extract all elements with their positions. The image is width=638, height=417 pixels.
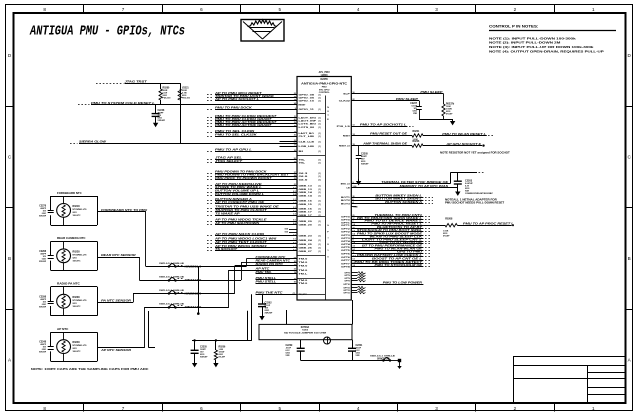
svg-text:9: 9 <box>295 108 296 110</box>
svg-text:(1): (1) <box>319 236 322 238</box>
svg-text:XW2214 0: XW2214 0 <box>185 306 203 309</box>
svg-text:23: 23 <box>294 93 296 95</box>
svg-text:NOTE: 100PF CAPS ARE THE SAMPL: NOTE: 100PF CAPS ARE THE SAMPLING CAPS F… <box>31 367 150 371</box>
svg-text:7.8: 7.8 <box>353 243 356 245</box>
svg-text:2: 2 <box>514 406 517 411</box>
svg-text:(1): (1) <box>319 176 322 178</box>
svg-text:(1): (1) <box>319 212 322 214</box>
svg-text:3: 3 <box>353 237 354 239</box>
svg-text:(1): (1) <box>319 109 322 111</box>
svg-text:10K-NTC: 10K-NTC <box>73 260 82 262</box>
svg-text:GBB_24: GBB_24 <box>299 239 314 242</box>
svg-text:Y2200: Y2200 <box>302 330 309 332</box>
svg-text:23: 23 <box>294 178 296 180</box>
svg-text:PMU SOCHOT NEEDS PULL-DOWN RES: PMU SOCHOT NEEDS PULL-DOWN RESET <box>445 202 505 205</box>
svg-text:CONTROL P IN NOTES:: CONTROL P IN NOTES: <box>489 25 538 29</box>
svg-text:8.1: 8.1 <box>293 191 296 193</box>
svg-text:FORKBEARD NTC: FORKBEARD NTC <box>57 191 82 195</box>
svg-text:54: 54 <box>294 256 296 259</box>
svg-text:(1): (1) <box>319 101 322 103</box>
svg-text:(1): (1) <box>319 124 322 126</box>
svg-text:PMU TO LOW POWER: PMU TO LOW POWER <box>383 282 423 285</box>
svg-text:PMU SLEEP: PMU SLEEP <box>396 98 419 101</box>
svg-text:8.4: 8.4 <box>293 222 296 225</box>
svg-text:0201: 0201 <box>73 348 77 350</box>
svg-text:A: A <box>628 357 632 362</box>
svg-text:21: 21 <box>353 215 355 217</box>
svg-text:8: 8 <box>43 406 46 411</box>
svg-text:TM.0: TM.0 <box>299 270 309 272</box>
svg-text:GI.0: GI.0 <box>299 180 310 182</box>
svg-text:CLT_LIB: CLT_LIB <box>299 136 315 138</box>
svg-text:X5R: X5R <box>413 113 417 115</box>
svg-text:GBB_14: GBB_14 <box>299 191 314 194</box>
svg-text:4: 4 <box>353 201 354 204</box>
svg-text:2.1: 2.1 <box>293 199 296 201</box>
svg-text:17: 17 <box>294 161 296 163</box>
svg-text:GPIO_09: GPIO_09 <box>299 98 316 100</box>
svg-text:PMU RESET OUT OE: PMU RESET OUT OE <box>370 132 407 135</box>
svg-text:A: A <box>8 357 12 362</box>
svg-text:4: 4 <box>357 406 360 411</box>
svg-text:PMU SLEEP: PMU SLEEP <box>420 91 443 94</box>
svg-text:BRIO_LS: BRIO_LS <box>341 183 351 185</box>
svg-text:SLP: SLP <box>343 94 351 96</box>
svg-text:TM.0: TM.0 <box>299 266 309 268</box>
svg-text:R0238: R0238 <box>73 296 81 299</box>
svg-text:NOTE (4): OUTPUT OPEN-DRAIN, R: NOTE (4): OUTPUT OPEN-DRAIN, REQUIRES PU… <box>489 50 604 54</box>
svg-text:7: 7 <box>122 7 125 12</box>
svg-text:(1): (1) <box>319 186 322 188</box>
svg-text:(1): (1) <box>319 195 322 197</box>
svg-text:GPT11: GPT11 <box>343 292 350 294</box>
svg-text:LAOT_DIG: LAOT_DIG <box>299 116 317 119</box>
svg-text:26: 26 <box>294 135 296 137</box>
svg-text:(1): (1) <box>319 244 322 246</box>
svg-text:TIL: TIL <box>299 163 307 165</box>
svg-text:PMU TO AP PROC RESET L: PMU TO AP PROC RESET L <box>463 223 514 226</box>
svg-text:24: 24 <box>294 98 296 101</box>
svg-text:PMU TO SEL CLK32K: PMU TO SEL CLK32K <box>215 133 257 136</box>
svg-text:PMU TO WLAN RESET L: PMU TO WLAN RESET L <box>442 133 487 136</box>
svg-text:E: E <box>327 119 329 121</box>
svg-text:13: 13 <box>294 132 296 134</box>
svg-text:C: C <box>8 154 12 159</box>
svg-text:6.4: 6.4 <box>353 233 356 236</box>
svg-text:D: D <box>628 53 632 58</box>
svg-text:LIB: LIB <box>346 187 350 189</box>
svg-text:LAOT_BO: LAOT_BO <box>299 132 315 135</box>
svg-text:GPT0: GPT0 <box>341 217 351 219</box>
svg-text:10K-NTC: 10K-NTC <box>73 351 82 353</box>
svg-text:XW2213 0: XW2213 0 <box>185 293 203 296</box>
svg-text:(1): (1) <box>319 192 322 194</box>
svg-text:BOT3: BOT3 <box>341 204 351 206</box>
svg-text:1.0: 1.0 <box>353 224 356 226</box>
svg-text:(1): (1) <box>319 221 322 223</box>
svg-text:1: 1 <box>592 7 595 12</box>
svg-text:TM.0: TM.0 <box>299 280 309 282</box>
svg-text:GBB_17: GBB_17 <box>299 215 314 217</box>
svg-text:REAR NTC SENSOR: REAR NTC SENSOR <box>101 254 136 257</box>
svg-text:B: B <box>628 256 631 261</box>
svg-text:P18_LS: P18_LS <box>337 126 351 128</box>
svg-text:GPT6: GPT6 <box>341 257 351 259</box>
svg-text:0201: 0201 <box>73 257 77 259</box>
svg-text:5.1: 5.1 <box>293 246 296 248</box>
svg-text:8: 8 <box>353 240 354 242</box>
svg-text:2.1: 2.1 <box>293 234 296 236</box>
svg-text:XW2-0.5-1 OHM-#B: XW2-0.5-1 OHM-#B <box>159 290 185 292</box>
svg-text:G: G <box>327 225 329 227</box>
svg-text:2.1: 2.1 <box>293 203 296 205</box>
svg-text:RESET_LS: RESET_LS <box>339 145 350 147</box>
svg-text:22: 22 <box>353 99 355 101</box>
svg-text:GPT0: GPT0 <box>341 219 351 221</box>
svg-text:GPT2: GPT2 <box>341 232 351 234</box>
svg-text:10K-NTC: 10K-NTC <box>73 306 82 308</box>
svg-text:O: O <box>327 244 329 246</box>
svg-text:TM_NTC: TM_NTC <box>299 294 308 296</box>
svg-text:GI.0: GI.0 <box>299 176 310 178</box>
svg-text:LOTS_BI: LOTS_BI <box>299 127 315 129</box>
svg-text:BOT2: BOT2 <box>341 200 351 202</box>
svg-text:(1): (1) <box>319 151 322 153</box>
svg-text:U2800: U2800 <box>321 75 328 77</box>
svg-text:30: 30 <box>353 196 355 198</box>
svg-text:8.1: 8.1 <box>293 220 296 222</box>
svg-text:17: 17 <box>294 145 296 147</box>
svg-text:GBB_20: GBB_20 <box>299 225 314 227</box>
svg-text:SA TOGGLE JUMPER 100 OHM: SA TOGGLE JUMPER 100 OHM <box>284 332 326 335</box>
svg-text:(1): (1) <box>319 159 322 161</box>
svg-text:P: P <box>327 231 329 233</box>
svg-text:C: C <box>628 154 632 159</box>
svg-text:SIERRA GLOW: SIERRA GLOW <box>79 140 107 143</box>
svg-text:0: 0 <box>327 257 329 259</box>
svg-text:X5R: X5R <box>356 355 360 357</box>
svg-text:5%-MF: 5%-MF <box>219 357 226 359</box>
svg-text:9.1: 9.1 <box>353 249 356 251</box>
svg-text:GPT4: GPT4 <box>341 243 351 246</box>
svg-text:8: 8 <box>353 199 354 201</box>
svg-text:(1): (1) <box>319 173 322 175</box>
svg-text:5: 5 <box>279 7 282 12</box>
svg-text:PMU TO STOCKHOLM OE: PMU TO STOCKHOLM OE <box>375 264 423 267</box>
svg-text:X5R: X5R <box>286 355 290 357</box>
svg-text:13: 13 <box>353 125 355 127</box>
svg-text:NTCWM03-LTS: NTCWM03-LTS <box>73 209 88 211</box>
svg-text:5.6: 5.6 <box>353 230 356 232</box>
svg-text:CLB_LLB: CLB_LLB <box>299 141 315 143</box>
svg-text:REAR CAMERA NTC: REAR CAMERA NTC <box>57 236 86 240</box>
svg-text:GBB_15: GBB_15 <box>299 204 314 206</box>
svg-text:ANTIGUA PMU - GPIOs, NTCs: ANTIGUA PMU - GPIOs, NTCs <box>29 25 185 40</box>
svg-text:1: 1 <box>592 406 595 411</box>
svg-text:RADIO PA NTC: RADIO PA NTC <box>57 282 80 286</box>
svg-text:(1): (1) <box>319 248 322 250</box>
svg-text:25: 25 <box>294 126 296 128</box>
svg-text:GPT2: GPT2 <box>341 229 351 231</box>
svg-text:1: 1 <box>327 250 329 252</box>
svg-text:21: 21 <box>294 184 296 186</box>
svg-text:38: 38 <box>294 96 296 98</box>
svg-text:GPIO_08: GPIO_08 <box>299 95 316 97</box>
svg-text:GPT9: GPT9 <box>344 280 350 282</box>
svg-text:GBB_15: GBB_15 <box>299 200 314 202</box>
svg-text:X5R-MF: X5R-MF <box>361 164 369 166</box>
svg-text:APL_PMU: APL_PMU <box>319 71 330 74</box>
svg-text:23: 23 <box>294 269 296 271</box>
svg-text:30: 30 <box>294 282 296 284</box>
svg-text:3: 3 <box>435 406 438 411</box>
svg-text:LAOT_INF: LAOT_INF <box>299 120 318 123</box>
svg-text:XW2-0.5-1 OHM-#B: XW2-0.5-1 OHM-#B <box>159 303 185 305</box>
svg-text:4: 4 <box>357 7 360 12</box>
svg-text:GPT5: GPT5 <box>341 247 351 249</box>
svg-text:GPT4: GPT4 <box>341 240 351 243</box>
svg-text:11: 11 <box>353 252 355 254</box>
svg-text:30: 30 <box>294 261 296 263</box>
svg-text:GPT1: GPT1 <box>341 222 351 224</box>
svg-text:NOTE (1): INPUT PULL-DOWN 100-: NOTE (1): INPUT PULL-DOWN 100-300k <box>489 36 576 40</box>
svg-text:(1): (1) <box>319 141 322 143</box>
svg-text:2: 2 <box>514 7 517 12</box>
svg-text:(1): (1) <box>319 240 322 242</box>
svg-text:PA NTC SENSOR: PA NTC SENSOR <box>101 300 131 303</box>
svg-text:X5R-MF: X5R-MF <box>39 352 47 354</box>
svg-text:RESET: RESET <box>299 104 307 106</box>
svg-text:GBB_27: GBB_27 <box>299 251 314 253</box>
svg-text:BUTTON SCREEN A: BUTTON SCREEN A <box>385 201 422 204</box>
svg-text:GPT3: GPT3 <box>341 238 351 240</box>
svg-text:500: 500 <box>285 232 289 234</box>
svg-text:(1): (1) <box>319 136 322 138</box>
svg-text:AP GPU SOCHOT E: AP GPU SOCHOT E <box>445 143 482 146</box>
svg-text:6: 6 <box>200 7 203 12</box>
svg-text:5%-MF: 5%-MF <box>446 114 453 116</box>
svg-text:5: 5 <box>279 406 282 411</box>
svg-text:GBB_16: GBB_16 <box>299 208 314 210</box>
svg-text:7: 7 <box>122 406 125 411</box>
svg-text:8.4: 8.4 <box>293 193 296 196</box>
svg-text:R0228: R0228 <box>73 250 81 253</box>
svg-text:10K-NTC: 10K-NTC <box>73 215 82 217</box>
svg-text:28: 28 <box>294 175 296 177</box>
svg-text:XW2230: XW2230 <box>377 357 391 360</box>
svg-text:X5R-MF: X5R-MF <box>158 120 166 122</box>
svg-text:X5R-MF: X5R-MF <box>39 216 47 218</box>
svg-text:(1): (1) <box>319 121 322 123</box>
svg-text:3.3: 3.3 <box>353 246 356 248</box>
svg-text:R0218: R0218 <box>73 205 81 208</box>
svg-text:NOTE RESISTOR NOT YET assigned: NOTE RESISTOR NOT YET assigned FOR SOCHO… <box>440 150 510 154</box>
svg-text:(1): (1) <box>319 95 322 97</box>
svg-text:11: 11 <box>294 116 296 118</box>
svg-text:NTCWM03-LTS: NTCWM03-LTS <box>73 345 88 347</box>
svg-text:AP NTC SENSOR: AP NTC SENSOR <box>100 349 132 352</box>
svg-text:XW2-0.5-1 OHM-#B: XW2-0.5-1 OHM-#B <box>159 276 185 278</box>
svg-text:AP NTC: AP NTC <box>57 327 69 331</box>
svg-text:PMU STELL: PMU STELL <box>256 280 278 283</box>
svg-text:GPT10: GPT10 <box>343 284 350 286</box>
svg-text:XW2212 0: XW2212 0 <box>185 279 203 282</box>
svg-text:2.1: 2.1 <box>293 207 296 209</box>
svg-text:D: D <box>8 53 12 58</box>
svg-text:5%-MF: 5%-MF <box>443 236 450 238</box>
svg-text:GPT1: GPT1 <box>341 225 351 227</box>
svg-text:PMU: PMU <box>322 86 327 88</box>
svg-text:GPT6: GPT6 <box>341 253 351 255</box>
svg-text:RESET: RESET <box>343 135 351 137</box>
svg-text:0201: 0201 <box>73 303 77 305</box>
svg-text:GPIO_11: GPIO_11 <box>299 109 316 111</box>
svg-text:T: T <box>327 115 329 117</box>
svg-text:AP TO PMU WDOG LOGIC1 WHI: AP TO PMU WDOG LOGIC1 WHI <box>213 237 277 240</box>
svg-text:23: 23 <box>353 227 355 229</box>
svg-text:GBB_20: GBB_20 <box>299 221 314 223</box>
svg-text:BOT1: BOT1 <box>341 197 351 199</box>
svg-text:GBB_23: GBB_23 <box>299 236 314 238</box>
svg-text:X5R-MF: X5R-MF <box>39 306 47 308</box>
svg-text:8.1: 8.1 <box>293 188 296 190</box>
svg-text:C1.: C1. <box>293 293 297 295</box>
svg-text:O: O <box>327 111 329 113</box>
svg-text:X5R-MF: X5R-MF <box>200 357 208 359</box>
svg-text:(1): (1) <box>319 133 322 135</box>
svg-text:(1): (1) <box>319 204 322 206</box>
svg-text:(1): (1) <box>319 200 322 202</box>
svg-text:8.1: 8.1 <box>293 210 296 212</box>
svg-text:40: 40 <box>294 118 296 121</box>
svg-text:17: 17 <box>353 218 355 220</box>
svg-text:LOTS_BIO: LOTS_BIO <box>299 124 317 126</box>
svg-text:R0208: R0208 <box>445 218 453 221</box>
svg-text:6: 6 <box>200 406 203 411</box>
svg-text:GPT7: GPT7 <box>341 263 351 265</box>
svg-text:2.1: 2.1 <box>293 239 296 241</box>
svg-text:(1): (1) <box>319 251 322 253</box>
svg-text:8.1: 8.1 <box>293 250 296 252</box>
svg-text:CLK32: CLK32 <box>339 101 352 103</box>
svg-text:39: 39 <box>294 122 296 124</box>
svg-text:(1): (1) <box>319 208 322 210</box>
svg-text:(1): (1) <box>319 163 322 165</box>
svg-text:TM.0: TM.0 <box>299 262 309 264</box>
svg-text:50: 50 <box>294 158 296 160</box>
svg-text:X5R-MF: X5R-MF <box>265 313 273 315</box>
svg-text:PD5-100: PD5-100 <box>163 98 172 100</box>
svg-text:GBB_13: GBB_13 <box>299 186 314 188</box>
svg-text:CGB2B1X5R0J473K033BC: CGB2B1X5R0J473K033BC <box>465 192 494 195</box>
svg-text:GPT3: GPT3 <box>341 235 351 237</box>
svg-text:NTCWM03-LTS: NTCWM03-LTS <box>73 300 88 302</box>
svg-text:GBB_13: GBB_13 <box>299 189 314 191</box>
svg-text:(1): (1) <box>319 189 322 191</box>
svg-text:THERMAL FILTER SYNC BRIDGE OE: THERMAL FILTER SYNC BRIDGE OE <box>381 181 448 184</box>
svg-text:R0206: R0206 <box>413 141 420 143</box>
svg-text:D2255: D2255 <box>320 78 328 81</box>
svg-text:16: 16 <box>353 92 355 94</box>
svg-text:R0248: R0248 <box>73 341 81 344</box>
svg-text:GI.3: GI.3 <box>299 173 310 175</box>
svg-text:GPT5: GPT5 <box>341 250 351 252</box>
svg-text:R0201: R0201 <box>413 131 420 133</box>
svg-text:TM.0: TM.0 <box>299 259 309 261</box>
svg-text:I: I <box>328 238 329 240</box>
svg-text:0201: 0201 <box>73 212 77 214</box>
svg-text:8.1: 8.1 <box>293 243 296 245</box>
svg-text:27: 27 <box>294 279 296 281</box>
svg-text:7: 7 <box>353 221 354 223</box>
svg-text:74: 74 <box>294 271 296 274</box>
svg-text:PMU TO AP SOCHOT1 L: PMU TO AP SOCHOT1 L <box>360 123 408 126</box>
svg-text:32: 32 <box>294 264 296 266</box>
svg-text:TIL: TIL <box>299 159 307 161</box>
svg-text:2.2: 2.2 <box>293 214 296 216</box>
svg-text:NTC GPIO: NTC GPIO <box>319 89 330 91</box>
svg-text:NTCWM03-LTS: NTCWM03-LTS <box>73 254 88 256</box>
svg-text:GPT7: GPT7 <box>341 260 351 262</box>
svg-text:JTAG TRST: JTAG TRST <box>125 80 148 83</box>
svg-text:(1): (1) <box>319 146 322 148</box>
svg-text:LOB_LIB: LOB_LIB <box>299 146 315 148</box>
svg-text:FORKBEARD NTC TO PMU: FORKBEARD NTC TO PMU <box>101 209 147 212</box>
svg-text:GPT8: GPT8 <box>341 267 351 269</box>
svg-text:GBB_25: GBB_25 <box>299 244 314 246</box>
svg-text:GBB_17: GBB_17 <box>299 212 314 214</box>
svg-text:GPIO_10: GPIO_10 <box>299 101 316 103</box>
svg-text:NOTE (3): INPUT PULL-UP OR DOW: NOTE (3): INPUT PULL-UP OR DOWN 100k-300… <box>489 45 594 49</box>
svg-text:TS WAKE AP: TS WAKE AP <box>215 212 240 215</box>
svg-text:3: 3 <box>435 7 438 12</box>
svg-text:8: 8 <box>43 7 46 12</box>
svg-text:PMU TO AP PROC RESET L: PMU TO AP PROC RESET L <box>371 223 422 226</box>
svg-text:ANTIGUA-PMU-GPIO-NTC: ANTIGUA-PMU-GPIO-NTC <box>301 83 347 86</box>
svg-text:N: N <box>327 107 329 109</box>
svg-text:10.2: 10.2 <box>353 256 357 258</box>
svg-text:AP NTC: AP NTC <box>254 267 270 270</box>
svg-text:GBB_14: GBB_14 <box>299 194 314 197</box>
svg-text:B: B <box>8 256 11 261</box>
svg-text:TM.0: TM.0 <box>299 283 309 285</box>
svg-text:XW2211 0: XW2211 0 <box>185 266 203 269</box>
svg-text:(1): (1) <box>319 180 322 182</box>
svg-text:TM.L: TM.L <box>299 274 309 276</box>
svg-text:GBB_26: GBB_26 <box>299 248 314 250</box>
svg-text:(1): (1) <box>319 98 322 100</box>
svg-text:PD5-100: PD5-100 <box>182 98 191 100</box>
svg-text:(1): (1) <box>319 225 322 227</box>
svg-text:MEMORY TO AP NTC BIAS: MEMORY TO AP NTC BIAS <box>400 185 449 188</box>
svg-text:16: 16 <box>294 150 296 152</box>
svg-text:AMP THERMAL SHDN OE: AMP THERMAL SHDN OE <box>362 142 408 145</box>
svg-text:3.0: 3.0 <box>353 265 356 267</box>
svg-text:500: 500 <box>285 229 289 231</box>
svg-text:XW2-0.5-1 OHM-#B: XW2-0.5-1 OHM-#B <box>159 263 185 265</box>
svg-text:NOTE (2): INPUT PULL-DOWN 2M: NOTE (2): INPUT PULL-DOWN 2M <box>489 41 561 45</box>
svg-text:X5R-MF: X5R-MF <box>39 261 47 263</box>
svg-text:(1): (1) <box>319 117 322 119</box>
svg-text:37: 37 <box>294 172 296 174</box>
svg-text:(1): (1) <box>319 127 322 129</box>
svg-text:BI: BI <box>299 151 304 153</box>
